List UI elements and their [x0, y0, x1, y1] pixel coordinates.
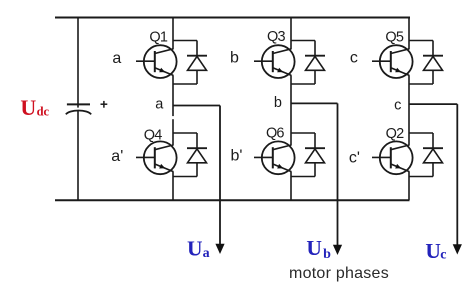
svg-text:U: U	[425, 239, 441, 263]
svg-text:dc: dc	[37, 104, 50, 118]
svg-text:Q5: Q5	[385, 29, 403, 45]
svg-text:motor phases: motor phases	[289, 265, 389, 282]
svg-text:b: b	[323, 247, 331, 262]
svg-text:a: a	[155, 97, 164, 113]
svg-text:b: b	[274, 95, 282, 111]
svg-text:Q3: Q3	[267, 29, 285, 45]
svg-text:b': b'	[231, 147, 243, 164]
svg-text:a: a	[112, 50, 121, 67]
svg-text:Q4: Q4	[144, 127, 162, 143]
svg-text:U: U	[306, 236, 322, 260]
svg-text:a: a	[203, 246, 210, 261]
svg-text:b: b	[230, 50, 239, 67]
svg-text:U: U	[20, 95, 36, 120]
svg-text:c: c	[440, 247, 446, 262]
svg-text:Q1: Q1	[149, 29, 167, 45]
svg-text:a': a'	[111, 148, 123, 165]
svg-text:Q2: Q2	[386, 126, 404, 142]
svg-text:c: c	[394, 98, 401, 114]
svg-text:c: c	[350, 50, 358, 67]
svg-text:Q6: Q6	[266, 125, 284, 141]
svg-text:U: U	[187, 237, 203, 261]
svg-text:c': c'	[349, 149, 360, 166]
